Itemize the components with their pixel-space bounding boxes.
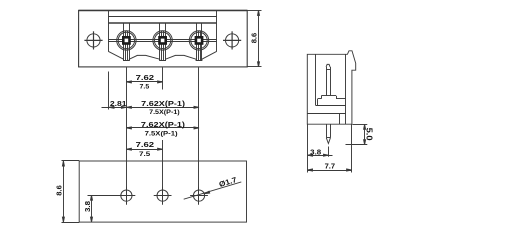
dimension 5.0 side view [346, 124, 368, 144]
terminal 3 [189, 23, 208, 60]
bottom view hole 3 [190, 187, 208, 205]
dimension 8.6 bottom view [62, 161, 64, 222]
dimension 3.8 bottom view [88, 195, 121, 222]
terminal 2 [153, 23, 172, 60]
svg-text:7.62X(P-1): 7.62X(P-1) [141, 99, 185, 108]
side view inner left wall [315, 54, 317, 105]
extension line terminal 2 center [162, 68, 164, 90]
dimension 7.62 lower [126, 148, 162, 150]
svg-text:7.62: 7.62 [136, 140, 155, 149]
svg-text:3.8: 3.8 [310, 147, 321, 156]
front view plug body left edge [108, 10, 110, 51]
svg-text:7.5: 7.5 [140, 84, 150, 91]
dimension 2.81 [102, 106, 127, 108]
svg-text:2.81: 2.81 [110, 99, 127, 108]
svg-text:8.6: 8.6 [249, 33, 258, 44]
svg-text:7.62: 7.62 [136, 73, 155, 82]
terminal 1 [117, 23, 136, 60]
front view through lines [108, 39, 217, 41]
bottom view outline [62, 161, 247, 223]
dimension 8.6 front view [247, 10, 261, 67]
svg-text:7.5X(P-1): 7.5X(P-1) [145, 130, 178, 137]
front view top edge thick overdraw [79, 10, 248, 12]
extension line terminal 1 center [126, 68, 128, 205]
svg-text:3.8: 3.8 [83, 201, 92, 212]
side view outer outline [307, 51, 355, 124]
dimension 7.62 upper [126, 81, 162, 83]
svg-text:7.62X(P-1): 7.62X(P-1) [141, 120, 186, 129]
dimension 7.62X(P-1) lower [126, 127, 199, 129]
side view cavity floor [316, 105, 346, 107]
front view plug body right edge [216, 10, 218, 51]
svg-text:7.5X(P-1): 7.5X(P-1) [149, 109, 180, 116]
side view pedestal [318, 96, 346, 106]
side view bottom band [307, 113, 346, 124]
front view body top band thick [108, 22, 217, 24]
front view flange outline [79, 10, 248, 67]
svg-text:5.0: 5.0 [365, 128, 374, 142]
front view body top line thin [108, 16, 217, 18]
front view wavy bottom outline [108, 51, 217, 60]
extension line terminal 3 center [198, 68, 200, 205]
mounting hole right [223, 31, 241, 49]
leader diameter 1.7 [184, 182, 242, 199]
bottom view hole 2 [154, 187, 172, 205]
dimension 7.7 side view [308, 125, 352, 173]
side view solder pin [326, 124, 330, 143]
svg-text:Ø1.7: Ø1.7 [218, 175, 238, 189]
side view center pin [326, 64, 330, 95]
side view inner right wall [345, 54, 347, 124]
svg-text:8.6: 8.6 [54, 185, 63, 196]
dimension 7.62X(P-1) upper [126, 106, 199, 108]
dimension 3.8 side view [308, 147, 333, 157]
svg-text:7.7: 7.7 [325, 162, 336, 171]
mounting hole left [84, 31, 102, 49]
svg-text:7.5: 7.5 [139, 151, 151, 158]
extension line body left edge [108, 72, 110, 110]
bottom view hole 1 [118, 187, 136, 205]
